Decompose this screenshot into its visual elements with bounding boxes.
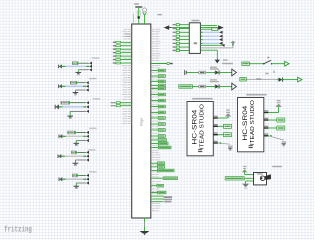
buffer triangle row 10 (232, 83, 237, 90)
arrowhead net D2 (86, 85, 89, 88)
module U2 pin VCC stub (213, 116, 218, 118)
wire diode to triangle row 10 (220, 86, 232, 88)
wire row B right (283, 79, 297, 81)
wire switch to arrow (272, 63, 285, 65)
LED D4 (58, 134, 63, 138)
ground arrow below header (215, 60, 220, 64)
U1 right pin stubs and labels (151, 29, 161, 212)
header J1 row7 wire to +5 stub (200, 44, 224, 47)
resistor R3 (61, 101, 86, 104)
ground symbol below U1 (140, 231, 150, 235)
net label text row B (256, 78, 261, 80)
arrowhead net gnd 6 (86, 181, 89, 184)
svg-text:HC-SR04: HC-SR04 (242, 105, 249, 140)
resistor R1 (72, 62, 89, 65)
net arrow row B (298, 77, 302, 82)
fuse/resistor vertical above U1 pin (137, 11, 140, 17)
U1 left connected pins pair (111, 102, 132, 107)
module U3 pin Echo stub (264, 126, 269, 128)
wire U1 GND pin down (144, 218, 146, 231)
ground symbol U3 (282, 141, 287, 146)
arrowhead left on top net (164, 25, 171, 30)
module U2 pin Trig stub (213, 124, 218, 126)
U1 right connected pins with net labels (151, 62, 178, 194)
net label U3 Trig (277, 118, 285, 122)
buffer triangle row 9 (232, 69, 237, 76)
net label box row B (240, 78, 247, 81)
LED D1 (58, 64, 63, 68)
resistor R9 (199, 71, 206, 74)
wire ground row 1 (78, 70, 89, 73)
net label box row A (242, 62, 250, 65)
wire diode to triangle row 9 (220, 72, 232, 74)
ground symbol buzzer (242, 184, 249, 189)
capacitor C9 (185, 70, 189, 75)
U1 left long labels 5V VIN (125, 33, 132, 37)
pin stub above U1 (132, 14, 134, 25)
switch S1 (263, 57, 272, 65)
arrowhead net D1 (89, 65, 92, 68)
svg-text:ITEAD STUDIO: ITEAD STUDIO (250, 100, 256, 146)
LED D10 (214, 84, 221, 88)
wire resistor to diode row 9 (206, 72, 216, 74)
arrowhead net D3 (86, 105, 89, 108)
unconnected cross symbol +5 (231, 41, 235, 46)
header J1 LCD data wires (pale blue) (200, 31, 222, 45)
wire ground row 5 (75, 160, 86, 163)
wire LED D3 to net (59, 106, 86, 108)
power symbol +5V U3 (275, 100, 281, 107)
arrowhead net R6 (86, 174, 89, 177)
wire row B left (246, 79, 278, 81)
net label box TX row 10 (179, 85, 193, 88)
wire ground row 2 (76, 90, 86, 93)
net label U2 Echo (224, 133, 232, 137)
U1 left pin stubs and labels (122, 29, 132, 124)
arrowhead net R1 (89, 62, 92, 65)
arrowhead right on top net (218, 25, 224, 30)
wire U2 Trig (218, 125, 224, 127)
ground symbol motif 3 (67, 116, 73, 119)
label 2x above diode (265, 71, 274, 75)
label LED group 3 (93, 98, 101, 99)
wire to resistor row 10 (192, 86, 198, 88)
wire LED D6 to net (62, 178, 86, 180)
wire gray row8 up stub (200, 43, 233, 48)
ground symbol U2 (228, 146, 233, 151)
wire resistor to diode row 10 (206, 86, 216, 88)
wire LED D4 to net (62, 135, 86, 137)
wire LED D1 to net (62, 65, 89, 67)
header J1 row GND wire down (200, 50, 217, 59)
label above diode row 10 (210, 79, 219, 82)
arrowhead net gnd 4 (86, 139, 89, 142)
label LED group 2 (89, 78, 97, 79)
label above buzzer (272, 166, 282, 167)
wire U2 Echo (218, 134, 224, 136)
ground symbol motif 4 (74, 143, 80, 146)
resistor R4 (68, 131, 86, 134)
arrowhead net gnd 1 (89, 68, 92, 71)
power symbol +5V buzzer (242, 166, 248, 172)
power symbol 5V bar above U1 (134, 3, 142, 11)
resistor R5 (72, 151, 86, 154)
module U2 pin Echo stub (213, 132, 218, 134)
label +5V near header (223, 59, 228, 60)
wire to resistor row 9 (188, 72, 199, 74)
header J1 left pin wires (173, 24, 190, 52)
wire LED D5 to net (61, 155, 86, 157)
label LED group 1 (92, 58, 100, 59)
svg-text:ITEAD STUDIO: ITEAD STUDIO (199, 104, 205, 150)
LED D2 (58, 84, 63, 88)
wire U2 VCC to +5V (218, 117, 228, 119)
wire buzzer gnd (246, 181, 254, 183)
ground symbol motif 1 (76, 72, 82, 75)
IC U1 Arduino Mega body (132, 24, 151, 218)
arrowhead net gnd 2 (86, 88, 89, 91)
LED D6 (58, 177, 63, 181)
resistor R2 (70, 81, 85, 84)
ground symbol motif 5 (73, 163, 79, 166)
wire ground row 4 (76, 141, 86, 144)
wire ground row 3 (70, 111, 86, 116)
ground symbol motif 6 (74, 186, 80, 189)
module U2 pin GND stub (213, 141, 218, 143)
label Vcc above U1 (157, 14, 162, 16)
header J1 body (189, 23, 200, 54)
ground symbol motif 2 (73, 93, 79, 96)
module U2 HC-SR04 body (187, 102, 213, 156)
module U3 pin GND stub (264, 134, 269, 136)
label LED group 4 (89, 128, 97, 129)
net label box buzzer (225, 177, 244, 180)
label above diode row 9 (210, 67, 219, 70)
label GND MOD (222, 63, 233, 64)
arrowhead net D4 (86, 135, 89, 138)
module U3 pin VCC stub (264, 110, 269, 112)
arrowhead net R5 (86, 151, 89, 154)
wire +5V to buzzer (245, 171, 254, 175)
LED D3 (55, 104, 60, 109)
wire LED D2 to net (62, 85, 86, 87)
svg-text:HC-SR04: HC-SR04 (192, 109, 199, 144)
wire U3 Echo (268, 127, 276, 129)
wire U2 GND (218, 142, 230, 144)
wire U3 Trig (268, 119, 276, 121)
header J1 right rows 1-2 (200, 25, 217, 30)
wire U3 VCC to +5V (268, 107, 278, 113)
net arrow row A (285, 61, 289, 66)
header J1 inner label (194, 42, 198, 44)
wire top net from U1 to header (166, 27, 223, 29)
junction dot above U1 (138, 17, 140, 19)
U1 part label text (140, 118, 144, 126)
arrowhead net gnd 3 (86, 110, 89, 113)
label LED group 6 (89, 171, 97, 172)
power symbol +5V circle above U1 (143, 8, 147, 24)
label header J1 (192, 20, 200, 22)
resistor R6 (73, 174, 86, 177)
U1 right ICSP wires and label (151, 196, 172, 202)
wire from junction to U1 pin (138, 19, 140, 24)
svg-text:fritzing: fritzing (4, 225, 32, 235)
arrowhead net D6 (86, 178, 89, 181)
arrowhead net R3 (86, 101, 89, 104)
arrowhead net R2 (86, 81, 89, 84)
U1 left connected pins cluster (7 wires) (113, 41, 132, 64)
net label U3 Echo (277, 126, 285, 130)
wire row A to switch (249, 63, 263, 65)
svg-text:Mega: Mega (140, 118, 144, 126)
arrowhead net D5 (86, 155, 89, 158)
power symbol +5V U2 (225, 110, 231, 117)
module U3 pin Trig stub (264, 118, 269, 120)
arrowhead net R4 (86, 131, 89, 134)
wire U3 GND (268, 135, 283, 140)
LED D9 (214, 70, 221, 74)
diode D7 (277, 78, 284, 82)
buzzer LS1 body (254, 173, 271, 185)
wire ground row 6 (76, 183, 86, 186)
wire label to buzzer (244, 177, 253, 179)
module U3 HC-SR04 body (238, 98, 264, 152)
label Capteur Ultrason 2 (192, 98, 213, 100)
label Capteur Ultrason 3 (246, 94, 267, 96)
arrowhead net gnd 5 (86, 158, 89, 161)
net label U2 Trig (224, 124, 232, 128)
resistor R10 (199, 85, 206, 88)
label LED group 5 (88, 149, 96, 150)
fritzing watermark (4, 225, 32, 235)
LED D5 (57, 154, 62, 158)
